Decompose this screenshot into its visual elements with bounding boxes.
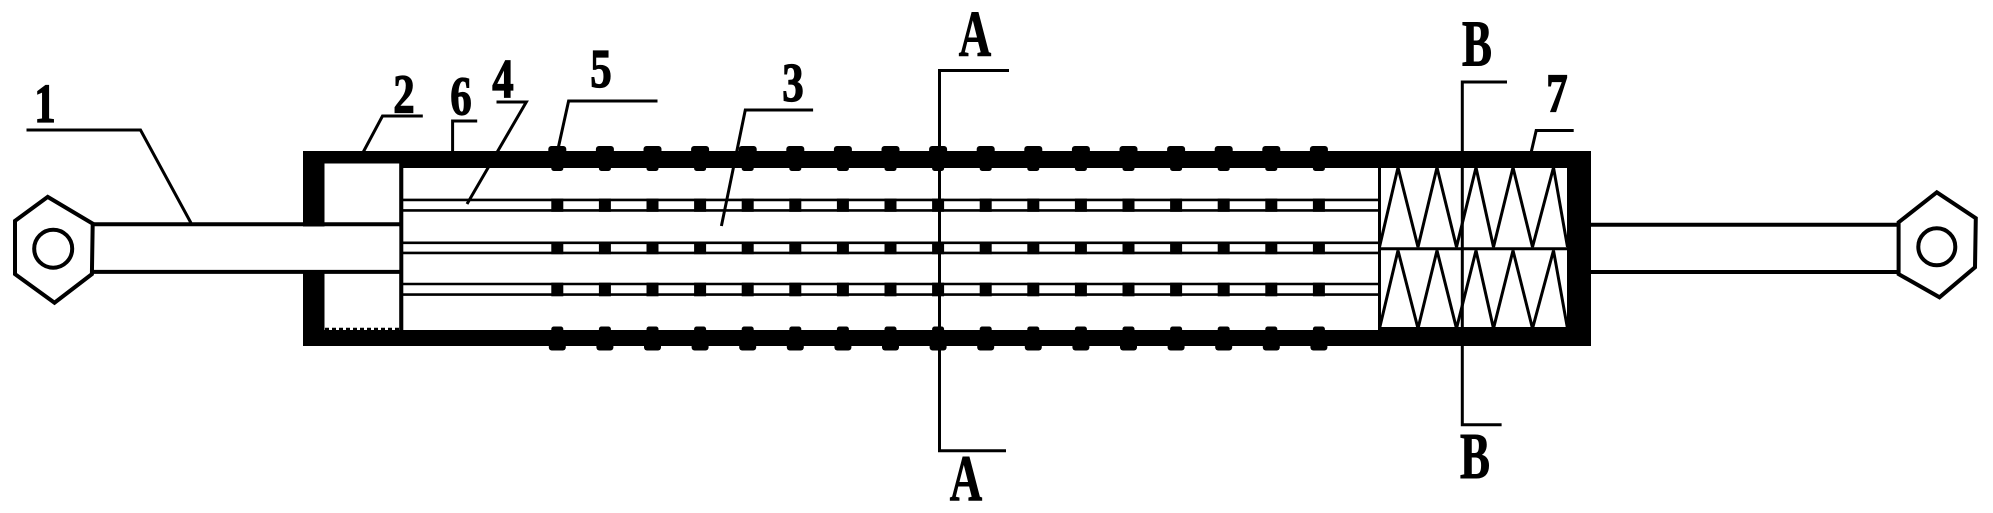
svg-text:7: 7 <box>1546 62 1567 123</box>
svg-text:1: 1 <box>34 73 55 134</box>
svg-text:A: A <box>959 0 992 71</box>
svg-text:5: 5 <box>590 38 611 99</box>
svg-text:6: 6 <box>450 65 471 126</box>
svg-text:B: B <box>1462 8 1492 81</box>
svg-text:B: B <box>1460 421 1490 494</box>
svg-text:3: 3 <box>782 52 803 113</box>
svg-text:2: 2 <box>393 64 414 125</box>
svg-text:4: 4 <box>492 48 513 109</box>
svg-text:A: A <box>950 443 983 513</box>
